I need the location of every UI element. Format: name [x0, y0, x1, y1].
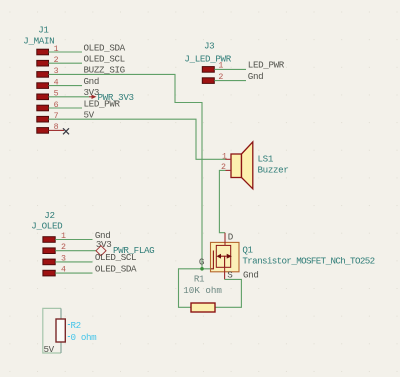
- svg-text:Gnd: Gnd: [243, 270, 259, 281]
- transistor Q1: [211, 242, 240, 271]
- connector J3: [184, 41, 231, 65]
- R2 top pin: [60, 308, 62, 319]
- J1 pin 1 pad: [37, 49, 49, 55]
- net label 5V R2: [44, 344, 55, 355]
- LS1 value label Buzzer: [258, 165, 289, 176]
- net label 3V3 J1.5: [84, 87, 100, 98]
- svg-text:5V: 5V: [44, 344, 55, 355]
- wire 5V from J1.7 to LS1 pin 1: [49, 119, 227, 159]
- resistor R2: [56, 319, 65, 342]
- svg-text:R2: R2: [71, 320, 81, 331]
- connector J2: [31, 210, 63, 231]
- svg-text:0 ohm: 0 ohm: [71, 332, 98, 343]
- wire gate net to R1 loop: [179, 269, 211, 308]
- wire OLED_SDA stub J2.4: [55, 272, 92, 274]
- power flag diamond PWR_FLAG: [96, 246, 106, 256]
- svg-text:J2: J2: [44, 210, 54, 221]
- net label LED_PWR J3.1: [248, 60, 285, 71]
- J1 pin 3 pad: [37, 72, 49, 78]
- net label 5V J1.7: [84, 110, 95, 121]
- Q1 inner mosfet symbol: [216, 245, 230, 267]
- wire Gnd stub J1.4: [49, 85, 83, 87]
- svg-text:J_MAIN: J_MAIN: [23, 36, 54, 47]
- J1 pin 4 number: [54, 78, 59, 87]
- LS1 pin 2 number: [221, 163, 226, 172]
- net label OLED_SDA: [84, 42, 126, 53]
- J1 pin 5 pad: [37, 94, 49, 100]
- LS1 reference label: [258, 154, 274, 165]
- junction on gate wire: [200, 267, 204, 271]
- Q1 reference label: [242, 245, 253, 256]
- net label Gnd J2.1: [95, 230, 111, 241]
- svg-text:Buzzer: Buzzer: [258, 165, 289, 176]
- wire OLED_SDA stub: [49, 51, 83, 53]
- wire Gnd stub J3.2: [214, 80, 246, 82]
- connector J1: [23, 25, 54, 47]
- J1 pin 4 pad: [37, 83, 49, 89]
- wire R1 right to Q1 source: [215, 279, 241, 307]
- svg-text:J3: J3: [204, 41, 214, 52]
- svg-text:J_OLED: J_OLED: [31, 221, 63, 232]
- svg-text:J1: J1: [38, 25, 49, 36]
- net label OLED_SCL: [84, 54, 125, 65]
- svg-text:Transistor_MOSFET_NCh_TO252: Transistor_MOSFET_NCh_TO252: [242, 256, 374, 267]
- svg-text:OLED_SDA: OLED_SDA: [95, 263, 137, 274]
- power symbol PWR_3V3 arrow: [89, 95, 97, 99]
- LS1 pin 1 stub: [226, 158, 232, 160]
- J1 pin 5 number: [54, 90, 59, 99]
- Q1 source pin: [224, 267, 226, 279]
- J1 pin 2 number: [54, 56, 59, 65]
- svg-text:Q1: Q1: [242, 245, 253, 256]
- svg-text:R1: R1: [194, 274, 205, 285]
- Q1 body box: [211, 242, 240, 271]
- J1 pin 8 number: [54, 123, 59, 132]
- svg-text:OLED_SDA: OLED_SDA: [84, 42, 126, 53]
- J2 pin 4 number: [61, 266, 66, 275]
- LS1 pin 1 number: [222, 152, 227, 161]
- svg-text:1: 1: [222, 152, 227, 161]
- svg-text:LED_PWR: LED_PWR: [248, 60, 285, 71]
- wire 3V3 stub J1.5: [49, 96, 90, 98]
- R2 value label: [68, 332, 97, 343]
- net label Gnd J3.2: [248, 71, 263, 82]
- J3 pin 2 pad: [202, 78, 214, 84]
- svg-text:Gnd: Gnd: [248, 71, 263, 82]
- net label Gnd J1.4: [84, 76, 100, 87]
- net label LED_PWR J1.6: [84, 98, 121, 109]
- svg-text:OLED_SCL: OLED_SCL: [84, 54, 125, 65]
- svg-text:D: D: [228, 231, 234, 242]
- wire BUZZ_SIG from J1.3 to Q1 gate: [49, 74, 203, 268]
- power net label PWR_FLAG: [113, 245, 154, 256]
- net label OLED_SCL J2.3: [95, 252, 136, 263]
- J2 pin 4 pad: [43, 270, 55, 276]
- svg-text:BUZZ_SIG: BUZZ_SIG: [84, 65, 125, 76]
- J1 pin 2 pad: [37, 60, 49, 66]
- net label BUZZ_SIG: [84, 65, 125, 76]
- svg-text:LS1: LS1: [258, 154, 274, 165]
- Q1 drain pin: [224, 233, 226, 246]
- Q1 gate bar: [211, 251, 214, 269]
- LS1 body rectangle: [231, 154, 242, 178]
- J1 pin 1 number: [54, 45, 59, 54]
- wire LED_PWR stub J1.6: [49, 107, 83, 109]
- J3 pin 1 number: [218, 62, 223, 71]
- power net label PWR_3V3: [98, 92, 134, 103]
- R1 value label: [183, 285, 222, 296]
- wire LED_PWR stub J3.1: [214, 68, 246, 70]
- no-connect X on J1.8: [63, 128, 69, 134]
- wire R2 loop left side: [43, 308, 61, 353]
- wire OLED_SCL stub J2.3: [55, 261, 92, 263]
- wire OLED_SCL stub: [49, 62, 83, 64]
- pin name D: [228, 231, 234, 242]
- LS1 horn: [242, 142, 253, 189]
- svg-text:OLED_SCL: OLED_SCL: [95, 252, 136, 263]
- J2 pin 1 number: [61, 232, 66, 241]
- J2 pin 3 pad: [43, 259, 55, 265]
- J2 pin 3 number: [61, 254, 66, 263]
- J2 pin 1 pad: [43, 237, 55, 243]
- wire 3V3 stub J2.2: [55, 250, 96, 252]
- svg-text:LED_PWR: LED_PWR: [84, 98, 121, 109]
- Q1 value label: [242, 256, 374, 267]
- net label OLED_SDA J2.4: [95, 263, 137, 274]
- J1 pin 6 number: [54, 101, 59, 110]
- J1 pin 6 pad: [37, 105, 49, 111]
- pin name S: [227, 270, 233, 281]
- svg-text:5V: 5V: [84, 110, 95, 121]
- svg-text:Gnd: Gnd: [84, 76, 100, 87]
- J1 pin 8 pad: [37, 128, 49, 134]
- J3 pin 1 pad: [202, 67, 214, 73]
- resistor R1: [191, 303, 215, 312]
- J2 pin 2 number: [61, 243, 66, 252]
- J1 pin 8 stub: [49, 129, 65, 131]
- R2 reference label: [68, 320, 81, 331]
- J3 pin 2 number: [218, 73, 223, 82]
- J2 pin 2 pad: [43, 248, 55, 254]
- wire LS1 pin 2 to Q1 drain: [219, 170, 225, 232]
- R1 reference label: [194, 274, 205, 285]
- svg-text:10K ohm: 10K ohm: [183, 285, 222, 296]
- svg-text:J_LED_PWR: J_LED_PWR: [184, 54, 231, 65]
- svg-text:G: G: [199, 257, 204, 268]
- wire Gnd stub J2.1: [55, 239, 92, 241]
- J1 pin 3 number: [54, 67, 59, 76]
- J1 pin 7 number: [54, 112, 59, 121]
- LS1 pin 2 stub: [226, 169, 232, 171]
- R2 bottom pin: [60, 342, 62, 353]
- pin name G: [199, 257, 204, 268]
- J1 pin 7 pad: [37, 116, 49, 122]
- net label Gnd on source: [243, 270, 259, 281]
- buzzer LS1: [231, 142, 253, 189]
- net label 3V3 J2.2: [96, 239, 112, 250]
